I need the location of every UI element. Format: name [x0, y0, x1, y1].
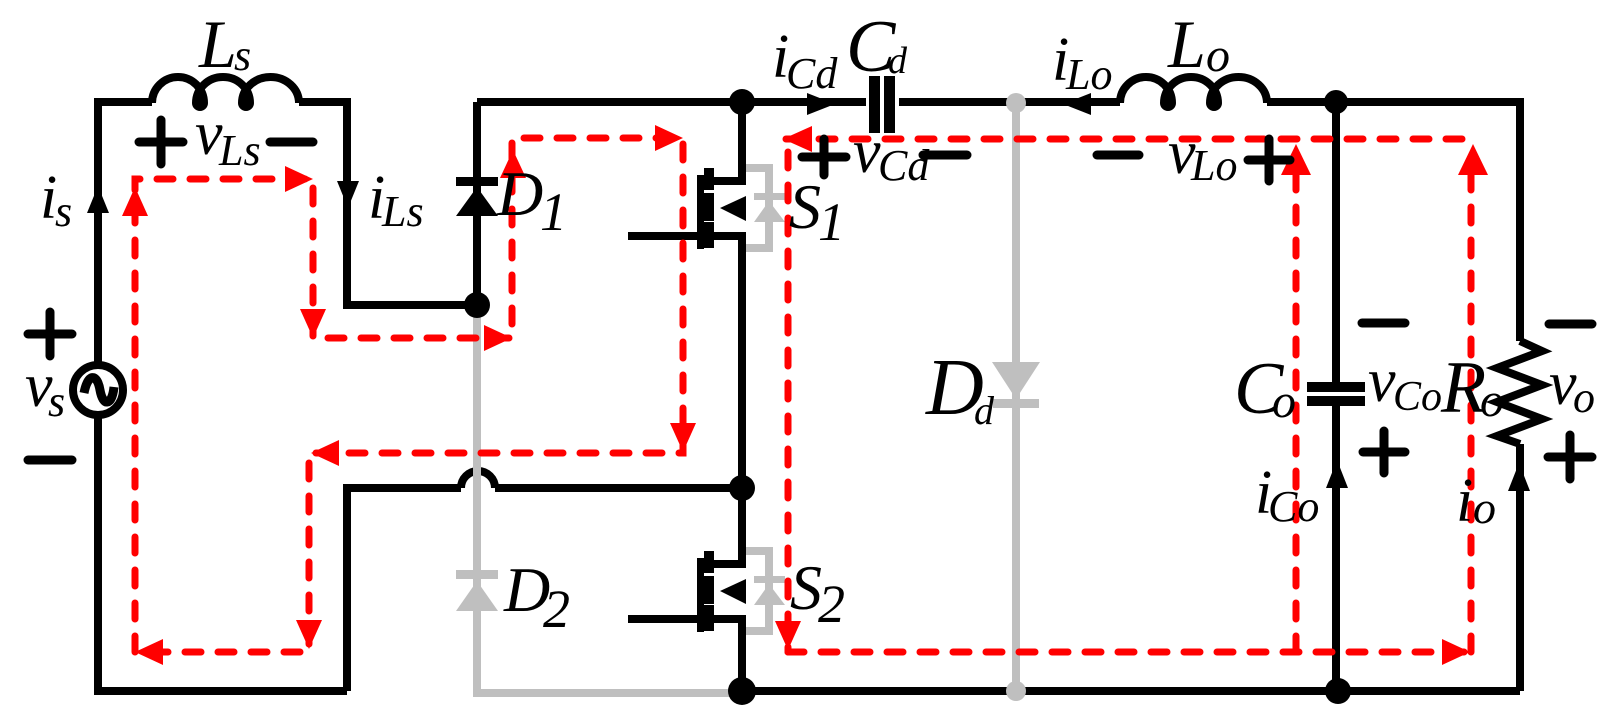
loop1 arrow right at y138: [655, 125, 683, 151]
node A: D1 anode junction: [464, 292, 490, 318]
WIRES-BLACK: [98, 102, 1520, 691]
node E: top rail / Co branch: [1324, 90, 1348, 114]
S1 gate wire: [628, 232, 701, 240]
svg-text:Lo: Lo: [1190, 141, 1237, 190]
PLUS / MINUS SIGNS: [28, 120, 1592, 479]
loop1 arrow up at left vertical: [122, 187, 148, 216]
svg-text:s: s: [234, 31, 251, 80]
S1 body diode symbol: [754, 193, 785, 200]
node C: S1 source / S2 drain: [729, 475, 755, 501]
plus Co: [1363, 431, 1405, 473]
wire: gray Dd branch: [1012, 102, 1020, 691]
RED DASHED LOOP 2 (right): [786, 139, 1473, 652]
svg-text:Co: Co: [1393, 374, 1442, 420]
resistor Ro zigzag: [1497, 341, 1542, 444]
wire: mid rail to S1/S2 junction: [495, 484, 742, 492]
S2 gate wire: [628, 615, 701, 623]
diode D1 symbol (black, pointing up): [456, 177, 498, 216]
plus vLo: [1248, 139, 1290, 181]
node B: top rail / S1 drain: [729, 89, 755, 115]
junction: Dd top dot: [1006, 93, 1026, 113]
wire: Co branch top: [1332, 102, 1340, 382]
minus vCd: [923, 151, 967, 160]
wire: top rail D1 to Cd left plate: [477, 98, 866, 106]
wire: S2 body-diode loop: [742, 551, 769, 631]
loop2 arrow right at bottom: [1442, 639, 1470, 665]
minus Ro: [1549, 320, 1592, 329]
junction: Dd bottom dot: [1006, 681, 1026, 701]
minus Co: [1362, 319, 1405, 328]
svg-text:v: v: [1368, 347, 1396, 415]
S2 body diode symbol: [754, 576, 785, 583]
arrow iLo (left): [1063, 93, 1091, 115]
wire: Ls right down to node A: [299, 102, 477, 305]
svg-text:s: s: [55, 187, 72, 236]
svg-text:Ls: Ls: [381, 187, 424, 236]
svg-text:s: s: [48, 377, 65, 426]
plus vLs: [139, 120, 183, 164]
loop2 arrow up at x1296: [1281, 144, 1311, 175]
loop2 arrow down at x788: [775, 621, 801, 650]
node D: S2 source / bottom rail: [728, 677, 756, 705]
svg-text:d: d: [888, 40, 908, 82]
wire: Co branch bottom: [1332, 405, 1340, 691]
GRAY-PARTS: [477, 102, 1016, 693]
wire: vs bottom to lower-left corner to x=347: [98, 414, 347, 691]
inductor Lo: [1120, 77, 1267, 107]
wire: D1 branch vertical: [473, 102, 481, 305]
wire: left vertical up to mid rail: [347, 488, 461, 691]
RED DASHED LOOP 1 (left): [135, 138, 683, 652]
wire: vs top to Ls left: [98, 102, 152, 366]
capacitor Cd plates: [869, 76, 895, 133]
svg-text:L: L: [198, 6, 237, 82]
wire: Ro bottom to bottom rail: [1516, 444, 1524, 691]
svg-text:D: D: [496, 158, 543, 229]
svg-text:1: 1: [818, 192, 845, 252]
arrow is (up): [87, 186, 109, 213]
loop2 arrow up at x1471: [1458, 144, 1488, 175]
svg-text:Lo: Lo: [1065, 50, 1112, 99]
svg-text:v: v: [853, 118, 881, 186]
node F: Co bottom / bottom rail: [1325, 678, 1351, 704]
svg-text:i: i: [1456, 467, 1473, 535]
svg-text:o: o: [1206, 29, 1230, 82]
svg-text:o: o: [1573, 373, 1595, 422]
svg-text:S: S: [789, 171, 821, 242]
svg-text:Cd: Cd: [786, 49, 838, 98]
plus Ro: [1548, 435, 1592, 479]
wire: bottom rail: [742, 687, 1520, 695]
plus vs: [28, 312, 72, 356]
arrow iCd (right): [807, 93, 835, 115]
svg-text:o: o: [1272, 375, 1296, 428]
BLACK CURRENT ARROWS: [87, 93, 1530, 491]
svg-text:L: L: [1167, 6, 1206, 82]
minus vs: [28, 456, 72, 465]
arrow io (up): [1508, 463, 1530, 491]
svg-text:2: 2: [818, 574, 845, 634]
loop1 arrow down at x313: [300, 309, 326, 338]
svg-text:o: o: [1480, 374, 1504, 427]
wire hop over gray D2 branch: [461, 471, 495, 488]
arrow iCo (up): [1326, 460, 1348, 488]
svg-text:Co: Co: [1268, 482, 1319, 531]
svg-text:1: 1: [540, 182, 567, 242]
transistor S2 (MOSFET): [628, 488, 746, 691]
loop1 arrow up at x512: [500, 150, 526, 178]
loop1 arrow down at x309: [296, 620, 322, 649]
wire: Cd right plate to Lo left: [899, 98, 1120, 106]
RED LOOP ARROWHEADS: [122, 125, 1488, 665]
svg-text:o: o: [1473, 482, 1496, 533]
wire: S1 body-diode loop: [742, 168, 769, 248]
loop1 arrow left at y451: [311, 440, 339, 466]
source vs (AC): [73, 365, 123, 415]
minus vLo: [1097, 151, 1139, 160]
loop1 arrow right at y338: [484, 325, 512, 351]
wire: Lo right to top-right corner down to Ro: [1267, 102, 1520, 341]
diode D2 symbol (gray, pointing up): [456, 570, 498, 579]
svg-text:Ls: Ls: [218, 126, 261, 175]
loop2 arrow left at top: [783, 126, 812, 152]
capacitor Co plates: [1307, 382, 1365, 406]
transistor S1 (MOSFET): [628, 102, 746, 488]
wire: gray D2 branch from node A to bottom junction: [477, 305, 742, 693]
loop1 arrow right at top corner: [285, 166, 313, 192]
arrow iLs (down): [337, 181, 359, 208]
svg-text:2: 2: [543, 579, 570, 639]
loop1 arrow left at y652: [135, 639, 163, 665]
diode Dd symbol (gray, pointing down): [992, 362, 1040, 399]
loop1 arrow down at x683: [670, 423, 696, 452]
svg-text:d: d: [974, 388, 995, 433]
minus vLs: [270, 138, 313, 147]
plus vCd: [802, 139, 846, 175]
inductor Ls: [152, 77, 299, 107]
svg-text:Cd: Cd: [878, 141, 930, 190]
